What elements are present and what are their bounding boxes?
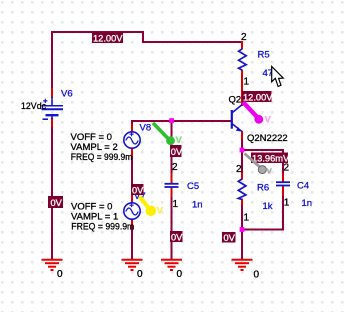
pin lead V8 top — [131, 124, 133, 132]
wire — [132, 120, 231, 122]
svg-text:FREQ = 999.9m: FREQ = 999.9m — [71, 152, 133, 163]
reference designator Q2 — [229, 95, 242, 106]
junction node (base / C5) — [169, 118, 174, 123]
svg-text:V: V — [176, 135, 183, 146]
svg-text:0V: 0V — [224, 233, 236, 243]
svg-text:12.00V: 12.00V — [243, 92, 273, 102]
ground 0 (C5 branch) — [161, 260, 183, 280]
wire — [241, 139, 243, 174]
pin lead V6 bottom — [51, 118, 53, 127]
wire — [131, 120, 133, 125]
svg-text:1: 1 — [173, 199, 179, 210]
wire — [242, 229, 284, 231]
pin number 2 (R5) — [241, 32, 247, 43]
wire — [51, 31, 53, 90]
sine source V7 — [124, 203, 140, 219]
svg-text:V: V — [157, 206, 164, 217]
bias voltage label 0V (V8/V7 net) — [131, 184, 144, 195]
svg-text:1k: 1k — [263, 201, 273, 212]
sine source V8 — [124, 132, 140, 148]
pin lead R5 pin1 to Q2 collector — [241, 70, 243, 106]
svg-text:1n: 1n — [192, 200, 203, 211]
resistor R6 — [238, 179, 246, 199]
svg-text:0V: 0V — [171, 232, 183, 242]
svg-text:1: 1 — [284, 198, 290, 209]
wire — [51, 126, 53, 260]
reference designator V7 — [134, 191, 146, 202]
bias voltage label 0V (V6 minus) — [48, 196, 63, 208]
svg-text:Q2N2222: Q2N2222 — [247, 133, 288, 144]
wire — [142, 41, 242, 43]
svg-text:C5: C5 — [187, 181, 199, 192]
svg-text:0: 0 — [177, 269, 183, 280]
wire — [171, 120, 173, 174]
voltage marker (yellow, V7 plus) — [140, 197, 164, 217]
pin lead C4 pin2 — [282, 173, 284, 182]
value label 1n (C5) — [192, 200, 203, 211]
svg-text:R6: R6 — [257, 183, 269, 194]
svg-text:2: 2 — [241, 32, 247, 43]
value label 1k — [263, 201, 273, 212]
svg-text:0: 0 — [254, 270, 260, 281]
pin lead V7 bottom — [131, 219, 133, 227]
svg-text:2: 2 — [236, 164, 242, 175]
wire — [52, 31, 143, 33]
pin lead C5 pin1 — [171, 187, 173, 197]
pin number 2 (R6) — [236, 164, 242, 175]
value label 47 — [263, 68, 274, 79]
wire — [241, 204, 243, 260]
bias voltage label 12.00V (collector) — [242, 91, 273, 102]
wire — [241, 149, 283, 151]
value label 12Vdc — [21, 101, 46, 112]
bias voltage label 0V (base net) — [170, 145, 183, 157]
voltage marker (green, base net) — [153, 123, 183, 146]
V7 property text VOFF/VAMPL/FREQ — [71, 201, 134, 232]
svg-text:0V: 0V — [132, 185, 144, 195]
svg-text:1: 1 — [244, 213, 250, 224]
svg-text:v: v — [267, 166, 273, 177]
pin number 1 (C5) — [173, 199, 179, 210]
wire — [131, 226, 133, 260]
pin lead V6 top — [51, 88, 53, 98]
pin number 2 (C5) — [172, 162, 178, 173]
wire — [282, 195, 284, 230]
svg-text:2: 2 — [172, 162, 178, 173]
pin lead Q2 emitter — [241, 131, 243, 140]
wire — [142, 31, 144, 42]
value label 1n (C4) — [302, 198, 313, 209]
pin number 2 (C4) — [284, 163, 290, 174]
svg-text:FREQ = 999.9m: FREQ = 999.9m — [71, 222, 134, 233]
ground 0 (V7 branch) — [122, 260, 144, 280]
svg-text:C4: C4 — [297, 181, 309, 192]
bias voltage label 12.00V (top net) — [92, 32, 123, 43]
reference designator R5 — [258, 50, 270, 61]
ground 0 (R6 branch) — [232, 260, 260, 281]
svg-text:0V: 0V — [51, 198, 63, 208]
wire — [282, 149, 284, 174]
pin number 1 (R6) — [244, 213, 250, 224]
pin lead C5 pin2 — [171, 173, 173, 184]
reference designator V6 — [61, 89, 73, 100]
reference designator R6 — [257, 183, 269, 194]
pin lead R5 pin2 — [241, 41, 243, 49]
reference designator C4 — [297, 181, 309, 192]
svg-text:0V: 0V — [171, 147, 183, 157]
svg-text:13.96mV: 13.96mV — [252, 154, 290, 164]
junction node (R6 bottom / C4 bottom) — [240, 227, 245, 232]
transistor Q2 — [232, 105, 242, 132]
reference designator C5 — [187, 181, 199, 192]
wire — [131, 155, 133, 196]
svg-text:1n: 1n — [302, 198, 313, 209]
pin number 1 (R5) — [244, 77, 250, 88]
junction node (emitter / R6 / C4) — [240, 148, 245, 153]
svg-text:1: 1 — [244, 77, 250, 88]
svg-text:12Vdc: 12Vdc — [21, 101, 46, 112]
svg-text:R5: R5 — [258, 50, 270, 61]
pin lead R6 pin1 — [241, 199, 243, 206]
pin lead R6 pin2 — [241, 173, 243, 180]
V8 property text VOFF/VAMPL/FREQ — [71, 132, 133, 163]
mouse cursor — [272, 66, 284, 86]
resistor R5 — [239, 49, 247, 70]
svg-text:2: 2 — [284, 163, 290, 174]
wire — [171, 196, 173, 260]
reference designator V8 — [140, 123, 152, 134]
pin lead C4 pin1 — [282, 186, 284, 196]
pin number 1 (C4) — [284, 198, 290, 209]
svg-text:V: V — [265, 115, 272, 126]
svg-text:0: 0 — [137, 269, 143, 280]
voltage marker (magenta, collector) — [243, 102, 271, 125]
bias voltage label 0V (R6 bottom net) — [222, 232, 236, 243]
svg-text:V8: V8 — [140, 123, 152, 134]
bias voltage label 0V (C5 bottom) — [170, 231, 183, 242]
voltage source V6 (battery) — [42, 97, 64, 119]
pin lead V7 top — [131, 195, 133, 203]
value label Q2N2222 — [247, 133, 288, 144]
svg-text:0: 0 — [57, 269, 63, 280]
capacitor C4 — [276, 182, 290, 185]
ground 0 (V6 branch) — [42, 260, 64, 280]
svg-text:12.00V: 12.00V — [93, 33, 123, 43]
svg-text:Q2: Q2 — [229, 95, 242, 106]
pin lead V8 bottom — [131, 148, 133, 156]
capacitor C5 — [165, 184, 179, 187]
svg-text:V6: V6 — [61, 89, 73, 100]
bias voltage label 13.96mV (emitter) — [251, 153, 290, 164]
voltage marker (gray, emitter) — [245, 154, 273, 177]
